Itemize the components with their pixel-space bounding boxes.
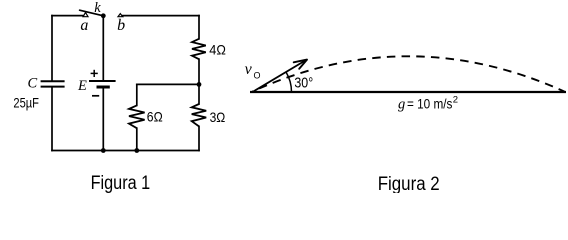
svg-text:= 10 m/s: = 10 m/s: [407, 97, 453, 112]
wire right branch lower (3-ohm to bottom rail): [198, 126, 200, 150]
wire top-left (capacitor branch top): [52, 15, 83, 17]
wire left branch upper (C top lead): [51, 16, 53, 81]
projectile trajectory (dashed parabola): [253, 56, 565, 91]
svg-text:g: g: [398, 97, 405, 113]
resistor 6-ohm zigzag: [129, 105, 145, 128]
wire right branch upper (to 4-ohm): [198, 16, 200, 39]
velocity vector v0 arrowhead: [294, 60, 307, 69]
wire right branch between 4-ohm and junction: [198, 59, 200, 84]
velocity vector v0 shaft: [253, 60, 306, 92]
wire battery branch upper (E top lead): [102, 16, 104, 81]
angle arc 30 degrees: [286, 72, 292, 92]
resistor 3-ohm zigzag: [192, 104, 207, 126]
svg-text:4Ω: 4Ω: [209, 42, 226, 58]
svg-text:a: a: [80, 17, 88, 34]
svg-text:b: b: [117, 17, 125, 34]
svg-text:6Ω: 6Ω: [147, 109, 163, 125]
capacitor C plates: [41, 81, 65, 86]
ground line (Figura 2): [250, 91, 566, 93]
wire right branch between junction and 3-ohm: [198, 84, 200, 104]
wire 6-ohm branch lower lead: [136, 128, 138, 150]
svg-text:25µF: 25µF: [13, 95, 39, 111]
svg-text:v: v: [245, 61, 253, 78]
junction dot (4-ohm / 3-ohm / middle wire): [197, 82, 202, 87]
svg-text:3Ω: 3Ω: [210, 109, 226, 125]
svg-text:k: k: [94, 0, 101, 16]
battery E plates: [89, 81, 116, 87]
svg-text:C: C: [28, 76, 38, 92]
battery plus sign: [91, 70, 98, 77]
svg-text:2: 2: [453, 95, 458, 106]
switch contact a (triangle): [83, 13, 88, 17]
wire middle horizontal (junction to 6-ohm branch): [137, 83, 199, 85]
wire bottom rail: [52, 150, 199, 152]
svg-text:30°: 30°: [294, 76, 313, 92]
svg-text:O: O: [254, 70, 261, 80]
switch pivot junction dot: [101, 13, 106, 18]
wire 6-ohm branch upper lead: [136, 84, 138, 105]
junction dot (battery branch / bottom rail): [101, 148, 106, 153]
svg-text:E: E: [77, 78, 87, 94]
wire battery branch lower (E bottom lead): [102, 88, 104, 151]
svg-text:Figura 2: Figura 2: [378, 174, 440, 193]
switch contact b (triangle): [118, 14, 123, 17]
switch k blade: [80, 10, 104, 16]
wire top-right (b contact to 4-ohm branch): [123, 15, 199, 17]
resistor 4-ohm zigzag: [192, 39, 206, 59]
svg-text:Figura 1: Figura 1: [91, 173, 151, 193]
wire left branch lower (C bottom lead): [51, 87, 53, 150]
battery minus sign: [92, 95, 99, 97]
junction dot (6-ohm branch / bottom rail): [134, 148, 139, 153]
